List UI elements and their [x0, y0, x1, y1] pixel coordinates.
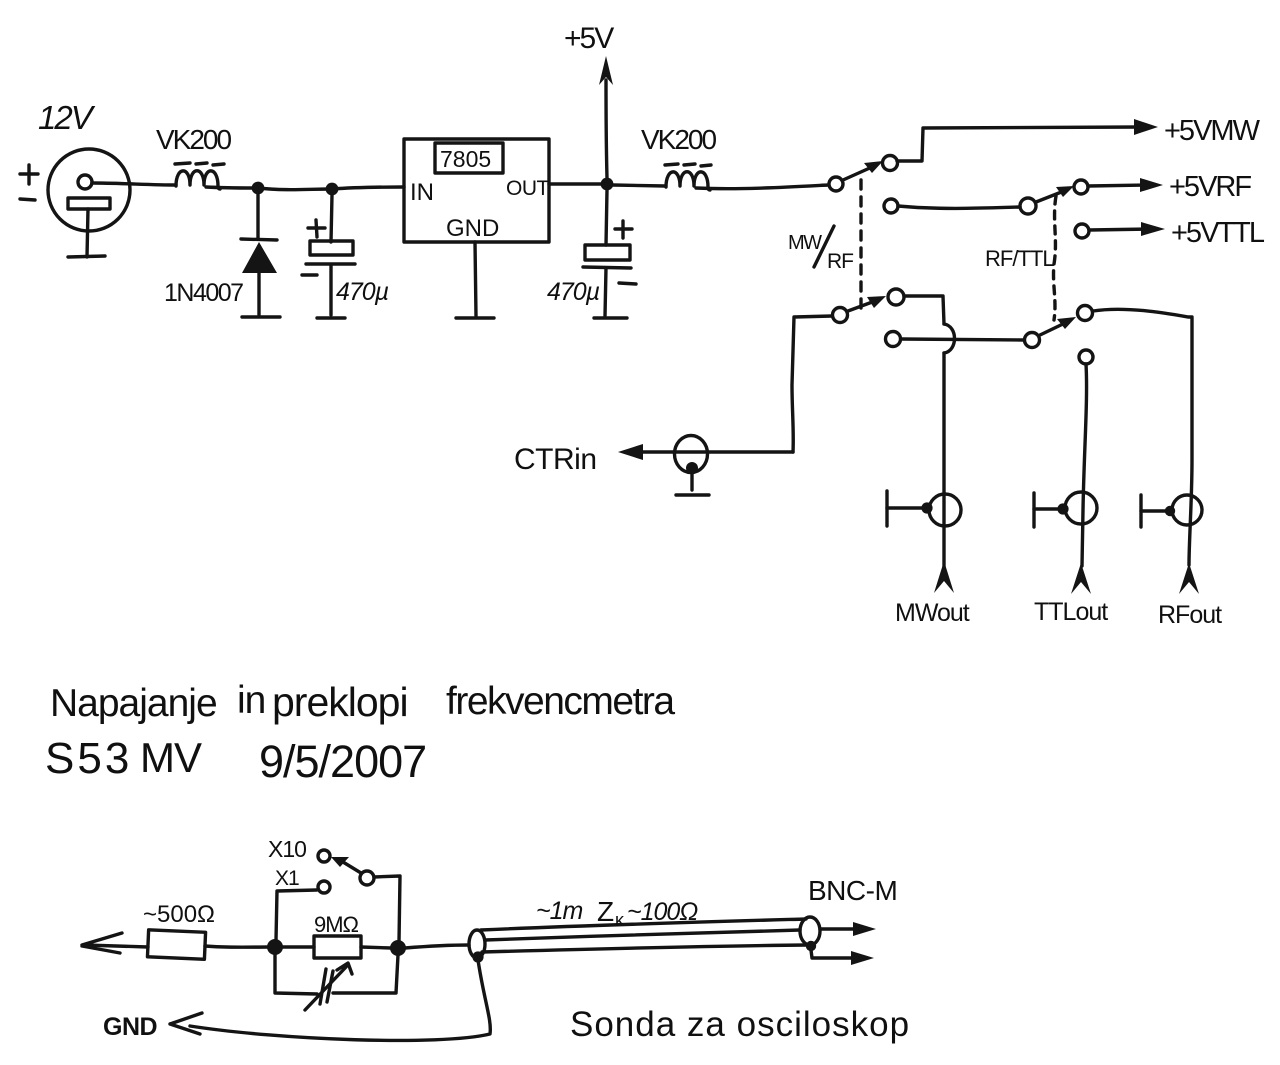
svg-text:9/5/2007: 9/5/2007 — [259, 736, 426, 787]
svg-text:+5VRF: +5VRF — [1169, 171, 1251, 203]
ground (C1) — [317, 316, 345, 319]
svg-text:~1m: ~1m — [536, 897, 583, 925]
svg-text:+5V: +5V — [564, 22, 614, 55]
net +5VTTL contact and arrow — [1075, 217, 1265, 249]
svg-text:S53: S53 — [45, 734, 132, 783]
switch link MW/RF dashed — [859, 180, 862, 308]
net GND arrow and label — [103, 1013, 202, 1041]
svg-text:VK200: VK200 — [156, 124, 231, 155]
svg-text:κ: κ — [615, 910, 625, 930]
capacitor C3 trimmer — [305, 963, 352, 1010]
net RFout arrow and label — [1158, 563, 1222, 629]
label MW/RF — [788, 226, 853, 273]
net +5VRF arrow — [1140, 171, 1251, 203]
regulator U1 7805 — [404, 139, 550, 316]
probe tip arrow — [82, 933, 148, 953]
svg-text:VK200: VK200 — [641, 124, 716, 155]
svg-text:TTLout: TTLout — [1034, 598, 1108, 626]
svg-text:IN: IN — [410, 179, 434, 206]
wire L1 to node — [206, 187, 254, 188]
switch S3 X1/X10 — [268, 836, 400, 942]
svg-text:OUT: OUT — [506, 177, 550, 200]
svg-text:frekvencmetra: frekvencmetra — [446, 680, 675, 723]
switch S2a RF/TTL upper — [1020, 180, 1150, 214]
connector J4 RFout — [1141, 495, 1202, 527]
wire node1 to node2 — [258, 188, 330, 190]
svg-text:X10: X10 — [268, 836, 306, 862]
resistor R1 ~500 ohm — [143, 901, 215, 959]
diode D1 1N4007 — [164, 194, 277, 315]
svg-text:~500Ω: ~500Ω — [143, 901, 215, 928]
ground (J1) — [676, 493, 709, 496]
resistor R2 9M ohm — [314, 912, 361, 958]
wire X1 branch — [276, 890, 317, 940]
net CTRin — [514, 443, 793, 476]
wire GND swoosh — [190, 960, 490, 1040]
svg-text:preklopi: preklopi — [272, 679, 408, 725]
capacitor C1 470u — [302, 195, 389, 315]
node +5V junction dot — [601, 178, 614, 191]
wire node B to coax — [405, 945, 469, 948]
wire 7805 OUT to +5V node — [549, 182, 602, 185]
svg-text:470µ: 470µ — [547, 278, 600, 306]
svg-text:X1: X1 — [275, 867, 299, 890]
wire lower branch — [275, 954, 398, 994]
svg-text:~100Ω: ~100Ω — [627, 898, 698, 926]
svg-text:12V: 12V — [38, 99, 96, 136]
svg-text:+5VTTL: +5VTTL — [1171, 217, 1265, 249]
svg-text:MV: MV — [140, 734, 202, 781]
net shield arrow — [811, 950, 874, 965]
ground (C2) — [594, 316, 627, 319]
node junction dot 1 — [252, 182, 265, 195]
svg-text:BNC-M: BNC-M — [808, 875, 897, 906]
switch S2b RF/TTL lower row — [886, 306, 1193, 566]
wire MWout vertical — [942, 353, 945, 566]
connector J3 TTLout — [1034, 492, 1097, 527]
ground (7805) — [456, 316, 494, 319]
switch S1b MW/RF lower — [833, 289, 945, 324]
switch S1a MW/RF upper — [829, 127, 1143, 191]
svg-text:Z: Z — [597, 896, 614, 927]
wire L2 to switch S1 — [696, 185, 828, 189]
svg-text:in: in — [237, 679, 265, 722]
svg-text:Sonda za osciloskop: Sonda za osciloskop — [570, 1005, 910, 1044]
ground (12V source) — [68, 256, 105, 257]
coax cable W1 — [469, 917, 820, 958]
wire hop MWout over row2 — [944, 324, 955, 353]
12V source B1 — [20, 99, 130, 257]
wire node A to R2 — [282, 945, 314, 948]
svg-text:7805: 7805 — [440, 146, 491, 172]
inductor L2 VK200 — [641, 124, 716, 190]
net +5V arrow — [564, 22, 614, 178]
wire +5V node to L2 — [613, 185, 665, 186]
ground (diode) — [242, 315, 280, 318]
switch link RF/TTL dashed — [1054, 196, 1056, 320]
connector J1 CTRin — [675, 436, 708, 491]
inductor L1 VK200 — [156, 124, 231, 189]
wire TTLout vertical — [1079, 350, 1093, 566]
net +5VMW arrow — [1134, 115, 1261, 147]
wire node2 to 7805 IN — [332, 187, 404, 189]
svg-text:RFout: RFout — [1158, 601, 1222, 629]
net TTLout arrow and label — [1034, 563, 1108, 626]
wire R2 to node B — [361, 947, 391, 948]
svg-text:CTRin: CTRin — [514, 443, 597, 476]
svg-text:MW: MW — [788, 232, 822, 254]
wire 12V to L1 — [92, 183, 176, 185]
node A junction dot — [267, 939, 283, 955]
node B junction dot — [390, 940, 406, 956]
svg-text:470µ: 470µ — [336, 278, 389, 306]
svg-text:Napajanje: Napajanje — [50, 682, 217, 725]
net center conductor arrow — [820, 922, 876, 936]
label coax — [536, 896, 698, 930]
net MWout arrow and label — [895, 561, 970, 627]
wire CTRin riser — [792, 316, 832, 452]
svg-text:9MΩ: 9MΩ — [314, 912, 359, 937]
capacitor C2 470u — [547, 190, 636, 316]
svg-text:+5VMW: +5VMW — [1164, 115, 1261, 147]
connector J2 MWout — [887, 491, 961, 526]
svg-text:RF/TTL: RF/TTL — [985, 246, 1054, 271]
wire S1b row to S2 — [884, 199, 1020, 213]
svg-text:GND: GND — [103, 1013, 157, 1041]
node coax shield dot left — [472, 951, 483, 962]
svg-text:MWout: MWout — [895, 599, 970, 627]
svg-text:1N4007: 1N4007 — [164, 279, 243, 307]
node coax shield dot right — [806, 941, 816, 951]
svg-text:RF: RF — [827, 250, 853, 273]
svg-text:GND: GND — [446, 215, 499, 242]
wire R1 to node A — [205, 946, 269, 947]
node junction dot 2 — [326, 183, 339, 196]
